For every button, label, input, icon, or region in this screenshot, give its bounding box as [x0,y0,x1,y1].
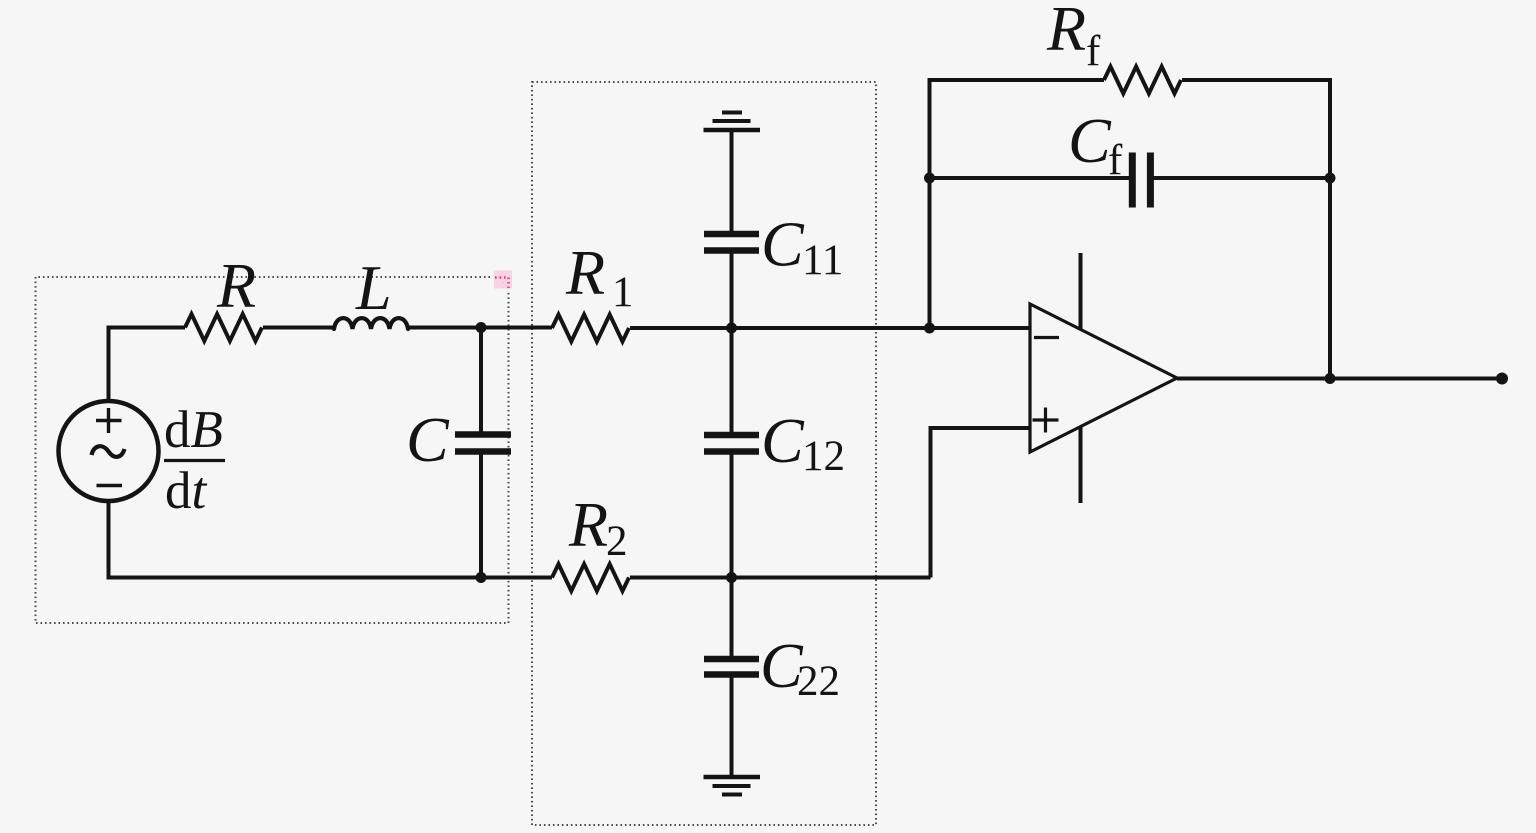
svg-text:C: C [406,404,450,475]
svg-text:R: R [216,250,256,321]
svg-text:f: f [1108,137,1123,184]
wire: R2 to plus-input riser [481,576,931,580]
voltage source dB/dt [59,401,159,501]
svg-text:C: C [761,405,805,476]
node: output terminal [1496,373,1508,385]
sine mark in source [92,446,125,457]
svg-text:R: R [565,237,605,308]
wire: C12 down to node D [730,454,734,578]
wire: top ground to C11 [730,130,734,232]
capacitor C branch vertical bottom [479,454,483,578]
svg-text:C: C [761,209,805,280]
node: output junction with feedback [1325,373,1336,384]
resistor R1 [552,315,629,342]
wire: C11 to node B [730,253,734,328]
svg-text:dt: dt [165,462,208,520]
node D (R2 junction) [726,572,737,583]
svg-text:12: 12 [802,433,845,480]
wire: feedback top right segment [1182,78,1332,82]
capacitor C22 [704,659,759,675]
op-amp minus sign [1034,336,1059,339]
wire: from L to node A then to R1 [408,326,552,330]
node: top of C branch [476,322,487,333]
wire: feedback left vertical [928,80,932,328]
node: Cf left [924,173,935,184]
wire: source bottom to bottom rail [107,502,111,580]
wire: C22 down to bottom ground [730,677,734,777]
wire: plus input riser [931,428,1031,578]
op-amp plus sign [1033,408,1059,433]
capacitor C plates [455,435,511,452]
wire: node B down to C12 [730,328,734,433]
dashed box: source network (left) [36,277,509,623]
node: Cf right [1325,173,1336,184]
wire: bottom rail of source loop [107,576,482,580]
capacitor Cf [1132,153,1150,208]
pink corner highlight on left box [494,271,512,290]
wire: feedback right vertical [1328,80,1332,379]
ground (bottom of middle box) [704,777,761,795]
svg-text:f: f [1086,28,1101,75]
op-amp U1 [1030,304,1177,452]
wire: node D down to C22 [730,578,734,657]
minus mark in source [97,484,123,487]
svg-text:1: 1 [612,269,634,316]
op-amp negative supply pin [1079,427,1083,503]
svg-text:R: R [1046,0,1086,64]
wire: R1 to op-amp minus input [630,326,1030,330]
wire: between R and L [263,326,334,330]
capacitor C11 [704,234,759,251]
plus mark in source [96,408,122,433]
ground (top of middle box) [704,113,761,131]
node B (R1 junction) [726,323,737,334]
svg-text:dB: dB [164,401,223,459]
wire: output [1177,377,1502,381]
resistor Rf [1104,67,1181,94]
dashed box: matching network (middle) [532,82,876,825]
svg-text:22: 22 [797,658,840,705]
svg-text:11: 11 [802,237,843,284]
wire: top-left from source to resistor R [107,326,186,330]
resistor R [185,314,262,341]
wire: left vertical down to source top [107,328,111,401]
svg-text:2: 2 [606,518,628,565]
capacitor C12 [704,435,759,452]
svg-text:L: L [355,252,392,323]
resistor R2 [552,564,629,591]
svg-text:C: C [1068,105,1112,176]
inductor L [334,318,408,329]
capacitor C branch vertical top [479,328,483,433]
wire: Cf right segment [1151,176,1330,180]
wire: feedback top left segment [928,78,1105,82]
node: minus input [924,323,935,334]
op-amp positive supply pin [1079,253,1083,329]
node: bottom of C branch [476,572,487,583]
wire: Cf left segment [930,176,1134,180]
label dB/dt [164,401,225,520]
svg-text:R: R [568,489,608,560]
